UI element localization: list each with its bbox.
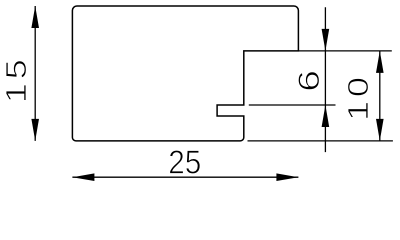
- extension line groove top: [249, 104, 336, 106]
- arrow 25 left: [72, 173, 94, 181]
- arrow 10 down: [376, 119, 384, 141]
- dimension line 6: [324, 7, 326, 152]
- extension line bottom: [248, 140, 393, 142]
- svg-text:25: 25: [168, 144, 201, 181]
- arrow 15 up: [31, 6, 39, 28]
- arrow 10 up: [376, 51, 384, 73]
- arrow 25 right: [276, 173, 298, 181]
- svg-text:15: 15: [0, 55, 32, 103]
- profile outline: [72, 6, 298, 141]
- extension line shoulder: [298, 50, 391, 52]
- svg-text:6: 6: [293, 70, 326, 92]
- svg-text:10: 10: [341, 73, 374, 121]
- dimension line 10: [379, 51, 381, 141]
- arrow 6 down (above shoulder): [322, 29, 330, 51]
- arrow 15 down: [31, 119, 39, 141]
- dimension line 15: [34, 6, 36, 141]
- dimension line 25: [72, 176, 298, 178]
- arrow 6 up (below groove top): [322, 105, 330, 127]
